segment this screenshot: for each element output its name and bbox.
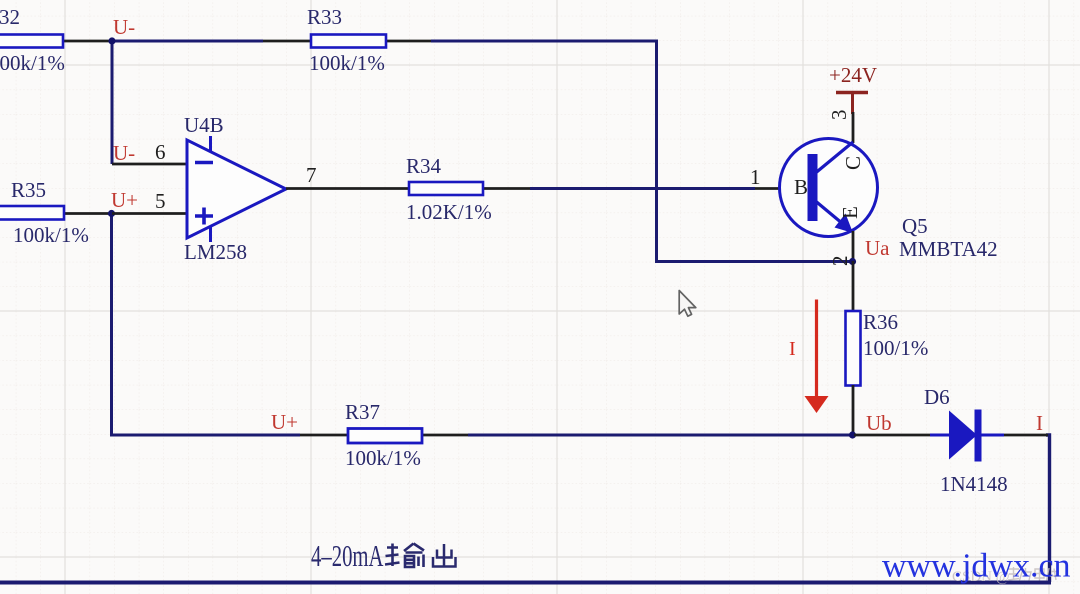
svg-text:6: 6 (155, 140, 166, 164)
svg-text:100k/1%: 100k/1% (0, 51, 65, 75)
node Ub junction (849, 431, 856, 438)
svg-text:7: 7 (306, 163, 317, 187)
wire op-amp output pin 7 (286, 187, 409, 190)
svg-text:Ub: Ub (866, 411, 892, 435)
svg-text:MMBTA42: MMBTA42 (899, 237, 998, 261)
wire Ub to diode (854, 434, 932, 437)
svg-text:Ua: Ua (865, 236, 890, 260)
svg-text:R33: R33 (307, 5, 342, 29)
wire (431, 41, 851, 262)
svg-text:Q5: Q5 (902, 214, 928, 238)
wire (0, 581, 1051, 585)
svg-text:2: 2 (828, 256, 852, 267)
node U+ junction (108, 210, 115, 217)
diode D6 (924, 385, 1008, 496)
svg-text:100/1%: 100/1% (863, 336, 928, 360)
CSDN watermark (952, 567, 1060, 585)
svg-text:I: I (1036, 411, 1043, 435)
node Ua junction (849, 258, 856, 265)
svg-text:3: 3 (827, 110, 851, 121)
svg-text:5: 5 (155, 189, 166, 213)
wire to R36 (852, 261, 855, 311)
svg-text:1.02K/1%: 1.02K/1% (406, 200, 492, 224)
svg-text:R34: R34 (406, 154, 442, 178)
svg-text:U-: U- (113, 15, 135, 39)
wire (112, 214, 301, 436)
node U- junction (108, 37, 115, 44)
CJK 出 (433, 544, 456, 567)
svg-text:www.jdwx.cn: www.jdwx.cn (882, 548, 1071, 585)
resistor R37 (300, 400, 468, 470)
svg-text:100k/1%: 100k/1% (345, 446, 421, 470)
wire (468, 434, 852, 437)
svg-text:1: 1 (750, 165, 761, 189)
svg-text:E: E (838, 206, 862, 219)
CJK 输 (385, 544, 424, 568)
wire (112, 40, 263, 43)
transistor Q5 (780, 139, 998, 262)
svg-text:4–20mA: 4–20mA (311, 538, 384, 573)
label 4-20mA output title (311, 538, 456, 573)
resistor R35 (0, 178, 110, 247)
svg-text:R32: R32 (0, 5, 20, 29)
op-amp U4B (184, 113, 286, 264)
svg-text:C: C (841, 156, 865, 170)
resistor R33 (263, 5, 431, 75)
wire base pin (755, 187, 810, 190)
wire (111, 40, 114, 165)
svg-text:100k/1%: 100k/1% (309, 51, 385, 75)
resistor R34 (406, 154, 530, 224)
svg-text:1N4148: 1N4148 (940, 472, 1008, 496)
power +24V (829, 63, 877, 114)
svg-text:LM258: LM258 (184, 240, 247, 264)
svg-text:R37: R37 (345, 400, 380, 424)
svg-text:U4B: U4B (184, 113, 224, 137)
svg-text:U+: U+ (111, 188, 138, 212)
wire emitter (852, 231, 855, 263)
wire collector (852, 112, 855, 143)
current arrow I (789, 300, 829, 414)
svg-text:B: B (794, 175, 808, 199)
svg-text:U-: U- (113, 141, 135, 165)
mouse cursor (679, 291, 696, 317)
wire (1046, 435, 1050, 582)
wire (530, 187, 755, 190)
wire pin6 (112, 163, 188, 166)
svg-text:R35: R35 (11, 178, 46, 202)
svg-text:D6: D6 (924, 385, 950, 409)
wire pin5 (112, 212, 188, 215)
resistor R36 (846, 310, 929, 386)
svg-text:100k/1%: 100k/1% (13, 223, 89, 247)
resistor R32 (0, 5, 110, 75)
wire R36 to Ub (852, 385, 855, 436)
svg-text:I: I (789, 338, 796, 360)
svg-text:U+: U+ (271, 410, 298, 434)
svg-text:+24V: +24V (829, 63, 877, 87)
svg-text:R36: R36 (863, 310, 898, 334)
wire diode to right (1004, 434, 1048, 437)
